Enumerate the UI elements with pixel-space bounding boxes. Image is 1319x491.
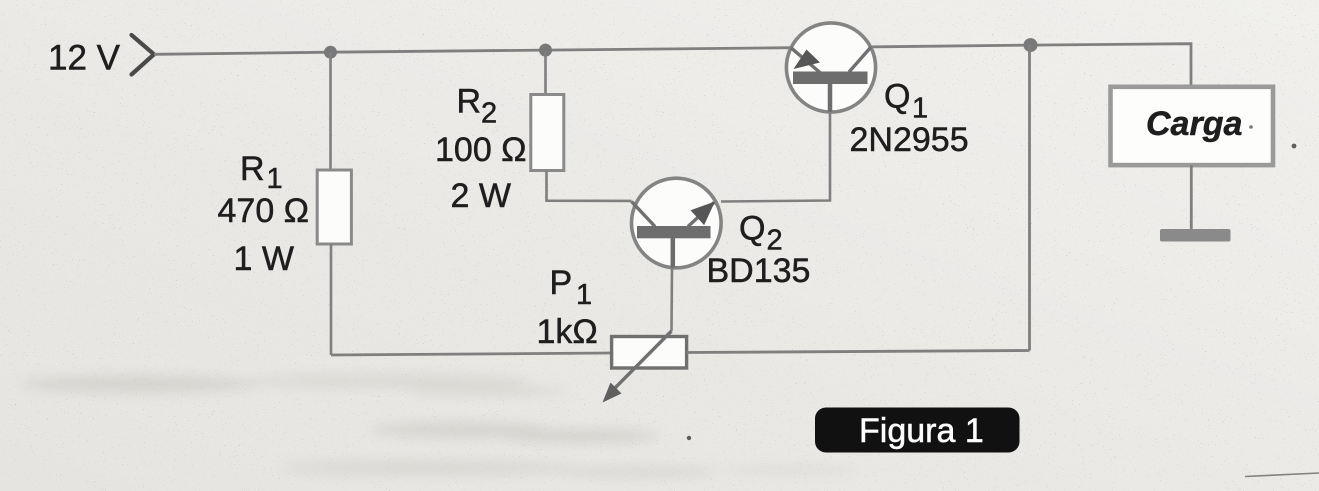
- svg-text:1: 1: [576, 279, 592, 311]
- svg-text:Figura 1: Figura 1: [859, 412, 984, 450]
- svg-text:R: R: [240, 150, 265, 188]
- figure caption Figura 1: [815, 408, 1020, 453]
- wire R2 top lead: [544, 50, 547, 94]
- transistor Q1: [786, 23, 875, 112]
- svg-text:1 W: 1 W: [234, 240, 294, 278]
- wire bottom left: [331, 353, 612, 355]
- transistor Q2: [632, 178, 722, 268]
- svg-text:Q: Q: [739, 210, 765, 248]
- svg-text:Carga: Carga: [1146, 105, 1242, 143]
- svg-text:12 V: 12 V: [48, 39, 121, 78]
- wire Q2 base lead: [670, 268, 673, 332]
- node J1: [324, 46, 337, 59]
- resistor R2: [531, 95, 564, 171]
- svg-text:P: P: [550, 264, 573, 302]
- resistor R1: [317, 170, 351, 244]
- load box Carga: [1111, 87, 1274, 165]
- wire R2 bottom lead: [547, 171, 632, 201]
- node J2: [539, 44, 552, 57]
- input connector chevron: [132, 35, 155, 75]
- wire right vertical: [1028, 45, 1031, 350]
- wire top rail right of Q1: [871, 44, 1192, 87]
- svg-text:2 W: 2 W: [451, 177, 511, 215]
- svg-text:BD135: BD135: [707, 252, 811, 290]
- wire R1 bottom lead: [330, 244, 333, 355]
- svg-text:1kΩ: 1kΩ: [537, 313, 598, 351]
- P1 wiper: [613, 331, 672, 390]
- wire bottom right: [687, 351, 1030, 353]
- ground: [1160, 229, 1231, 242]
- svg-text:1: 1: [912, 93, 928, 125]
- svg-text:Q: Q: [884, 78, 910, 116]
- wire R1 top lead: [329, 52, 332, 170]
- wire top rail left: [154, 48, 791, 55]
- svg-text:1: 1: [267, 163, 283, 195]
- wire Carga bottom lead: [1190, 165, 1193, 230]
- wire Q2 emitter to Q1 base: [721, 112, 830, 202]
- P1 wiper arrowhead: [603, 383, 622, 403]
- svg-text:2N2955: 2N2955: [850, 121, 969, 159]
- svg-text:2: 2: [481, 98, 497, 130]
- potentiometer P1: [612, 337, 687, 369]
- node J3: [1024, 38, 1038, 52]
- svg-text:100 Ω: 100 Ω: [435, 131, 527, 169]
- svg-text:470 Ω: 470 Ω: [218, 192, 310, 230]
- svg-text:R: R: [457, 83, 482, 121]
